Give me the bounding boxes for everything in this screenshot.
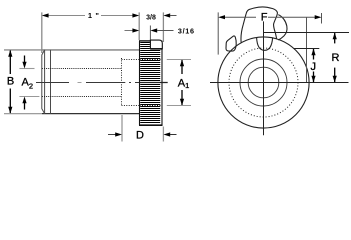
dimension R: arrows and label bbox=[332, 33, 340, 83]
svg-text:F: F bbox=[261, 12, 268, 24]
cam right lobe bbox=[278, 15, 287, 40]
svg-text:B: B bbox=[7, 76, 14, 88]
dimension F: line, arrows, label bbox=[218, 12, 321, 24]
lock body left face and chamfer lines bbox=[42, 50, 51, 114]
dimension A2: extension lines bbox=[19, 69, 39, 97]
dimension 3/16: ext line, arrows, text bbox=[125, 26, 195, 40]
svg-text:": " bbox=[95, 11, 99, 20]
svg-text:D: D bbox=[136, 129, 144, 141]
dimension 1 inch: extension lines bbox=[42, 12, 139, 53]
hidden bore lines (dotted) bbox=[42, 69, 122, 97]
dimension D: arrows and label bbox=[108, 129, 177, 141]
cam tip horn (upper left) bbox=[226, 36, 236, 51]
dimension F: extension lines bbox=[218, 12, 321, 82]
knurled knob outline bbox=[139, 41, 163, 126]
dimension 1 inch: line, arrows, text bbox=[42, 11, 139, 20]
body circle bbox=[218, 37, 309, 128]
plug circle bbox=[248, 67, 279, 98]
dimension A1: extension lines bbox=[167, 60, 191, 106]
dimension J: extension line (top) bbox=[294, 48, 320, 50]
cam pivot notch (U shape) bbox=[257, 38, 273, 51]
dimension 3/8: ext line, arrow, text bbox=[146, 12, 176, 42]
dimension J: arrows and label bbox=[311, 49, 317, 83]
centerline through knob bbox=[140, 82, 168, 84]
dimension D: extension lines bbox=[122, 115, 163, 142]
lock body bottom edge (with B extension left) bbox=[4, 113, 140, 115]
svg-text:3/8: 3/8 bbox=[146, 15, 156, 22]
centerline of cylinder bbox=[36, 82, 140, 84]
hidden circle (dotted) bbox=[229, 48, 298, 117]
cam notch on knob (top right) bbox=[150, 40, 162, 49]
svg-text:1: 1 bbox=[88, 11, 92, 20]
lock body top edge (with B extension left) bbox=[4, 49, 140, 51]
knurl stripes bbox=[140, 43, 160, 123]
dimension A2: arrows and label bbox=[22, 56, 34, 110]
dimension B: arrows and label bbox=[7, 50, 14, 114]
hidden stem lines (dotted) bbox=[122, 58, 140, 106]
svg-text:3/16: 3/16 bbox=[178, 26, 195, 35]
dimension A1: arrows and label bbox=[178, 60, 190, 106]
hidden stem dotted lines crossing knob bbox=[140, 60, 163, 106]
bezel circle bbox=[240, 59, 287, 106]
cam (top dome) bbox=[241, 7, 277, 43]
svg-text:J: J bbox=[311, 61, 317, 73]
dimension R: extension line (top) bbox=[264, 32, 350, 34]
crosshair centerlines bbox=[210, 21, 349, 135]
svg-text:R: R bbox=[332, 52, 340, 64]
